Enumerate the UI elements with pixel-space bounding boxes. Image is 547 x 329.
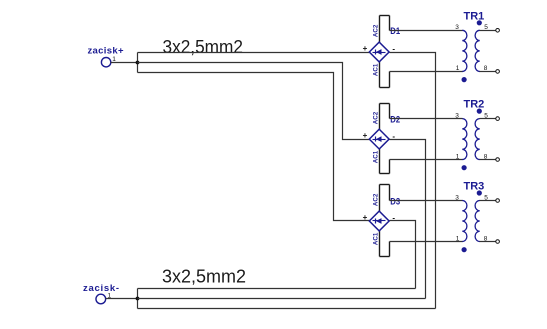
open terminal circle TR2 pin 8 [496, 158, 500, 162]
bridge rectifier D1 diamond [369, 42, 389, 62]
node top bus vertical tie [137, 53, 139, 73]
wire D1 AC2 to transformer pin 3 [390, 30, 463, 32]
bridge rectifier D2 diamond [369, 129, 389, 149]
polarity dot TR2 primary (bottom) [462, 165, 467, 170]
transformer TR1 secondary winding [475, 30, 480, 71]
svg-text:1: 1 [456, 65, 460, 72]
transformer TR3 primary winding [462, 201, 467, 242]
wire bottom bus conductor to D2 return [138, 298, 426, 300]
svg-text:TR2: TR2 [464, 99, 485, 111]
svg-text:TR1: TR1 [464, 10, 485, 22]
junction dot top bus [136, 61, 140, 65]
svg-text:TR3: TR3 [464, 181, 485, 193]
open terminal circle TR3 pin 5 [496, 199, 500, 203]
transformer TR2 primary winding [462, 119, 467, 160]
wire D2 AC2 to transformer pin 3 [390, 118, 463, 120]
wire bottom bus conductor to D3 return [138, 288, 416, 290]
wire TR1 pin 5 to open terminal [480, 30, 496, 32]
svg-text:D2: D2 [390, 114, 400, 124]
wire D2 minus output to bottom bus [390, 140, 426, 299]
wire conductor 2: top bus to D2 + [138, 63, 370, 140]
transformer TR1 primary winding [462, 30, 467, 71]
node bottom bus vertical tie [137, 289, 139, 309]
wire TR2 pin 8 to open terminal [480, 159, 496, 161]
wire conductor 1: top bus to D1 + [138, 52, 370, 54]
transformer TR2 secondary winding [475, 119, 480, 160]
bridge rectifier D3 body outline [380, 185, 390, 257]
svg-text:1: 1 [456, 235, 460, 242]
svg-text:zacisk+: zacisk+ [88, 46, 124, 57]
wire conductor 3: top bus to D3 + [138, 73, 370, 221]
polarity dot TR1 primary (bottom) [462, 77, 467, 82]
wire D2 AC1 to transformer pin 1 [390, 159, 463, 161]
svg-text:zacisk-: zacisk- [83, 283, 119, 294]
svg-text:1: 1 [456, 153, 460, 160]
diode symbol inside D2 [373, 136, 386, 142]
terminal zacisk- [96, 294, 106, 304]
svg-text:AC2: AC2 [373, 25, 380, 38]
transformer TR3 secondary winding [475, 201, 480, 242]
svg-text:+: + [363, 44, 368, 53]
svg-text:AC1: AC1 [373, 64, 380, 77]
diode symbol inside D3 [373, 218, 386, 224]
svg-text:AC2: AC2 [373, 112, 380, 125]
wire TR3 pin 5 to open terminal [480, 200, 496, 202]
wire zacisk- to bottom bus junction [106, 298, 138, 300]
open terminal circle TR3 pin 8 [496, 240, 500, 244]
svg-text:3: 3 [455, 24, 459, 31]
svg-text:D3: D3 [390, 196, 400, 206]
polarity dot TR3 primary (bottom) [462, 247, 467, 252]
wire D1 minus output to bottom bus [390, 53, 436, 309]
wire zacisk+ to top bus junction [111, 62, 138, 64]
terminal zacisk+ [101, 58, 110, 67]
svg-text:3: 3 [455, 112, 459, 119]
junction dot bottom bus [136, 297, 140, 301]
polarity dot TR2 secondary (top) [477, 109, 482, 114]
polarity dot TR3 secondary (top) [477, 190, 482, 195]
wire D3 minus output to bottom bus [390, 221, 416, 289]
open terminal circle TR2 pin 5 [496, 117, 500, 121]
svg-text:+: + [363, 131, 368, 140]
open terminal circle TR1 pin 5 [496, 29, 500, 33]
wire TR2 pin 5 to open terminal [480, 118, 496, 120]
svg-text:AC1: AC1 [373, 151, 380, 164]
svg-text:+: + [363, 213, 368, 222]
svg-text:-: - [392, 214, 395, 223]
bridge rectifier D1 body outline [380, 16, 390, 88]
svg-text:AC2: AC2 [373, 194, 380, 207]
wire TR3 pin 8 to open terminal [480, 241, 496, 243]
svg-text:3x2,5mm2: 3x2,5mm2 [163, 36, 244, 57]
wire D1 AC1 to transformer pin 1 [390, 71, 463, 73]
polarity dot TR1 secondary (top) [477, 20, 482, 25]
svg-text:3x2,5mm2: 3x2,5mm2 [162, 266, 246, 287]
svg-text:3: 3 [455, 194, 459, 201]
svg-text:AC1: AC1 [373, 233, 380, 246]
diode symbol inside D1 [373, 49, 386, 55]
bridge rectifier D2 body outline [380, 104, 390, 174]
open terminal circle TR1 pin 8 [496, 70, 500, 74]
wire D3 AC2 to transformer pin 3 [390, 200, 463, 202]
wire TR1 pin 8 to open terminal [480, 71, 496, 73]
wire bottom bus conductor to D1 return [138, 308, 436, 310]
wire D3 AC1 to transformer pin 1 [390, 241, 463, 243]
bridge rectifier D3 diamond [369, 211, 389, 231]
